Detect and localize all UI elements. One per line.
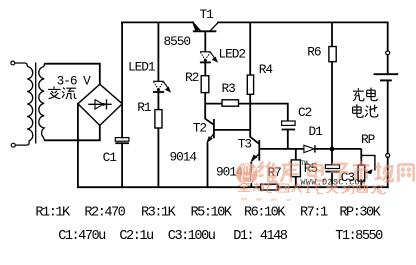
diode D1 triangle [304,145,314,152]
watermark char 电 [308,162,325,181]
wire R4 bottom to T3 collector [250,94,259,144]
transistor T1 emitter slant [193,23,200,31]
svg-text:R4: R4 [259,62,274,77]
C3 bottom lead [331,172,333,187]
transformer T primary winding [27,67,33,142]
capacitor C2 bottom plate [282,129,296,131]
wire secondary bottom to bridge [45,125,100,140]
transformer T secondary lead bottom [44,138,46,141]
label 充 (charging) hand-drawn glyph [353,88,378,101]
wire R6 branch top [331,22,333,46]
watermark text line1 维库电子市场网 approximations [258,161,413,182]
capacitor C3 bottom plate [325,171,339,173]
transistor T1 collector slant [210,22,218,30]
LED LED1 apex dot [157,88,160,91]
bridge diode axis wire [88,103,111,105]
T2 base wire to R4 line [214,129,250,131]
svg-text:R6: R6 [307,45,321,60]
bridge rectifier diamond [78,84,122,125]
values row 2 [58,229,383,244]
wire bottom rail left of R7 [78,186,261,188]
wire right rail battery bottom lead [387,81,389,153]
LED LED2 cathode bar [200,61,211,63]
svg-text:R2: R2 [185,70,199,85]
svg-text:R1: R1 [137,100,152,115]
svg-text:RP:30K: RP:30K [339,205,381,220]
svg-text:R7:1: R7:1 [300,205,328,220]
svg-text:RP: RP [361,132,375,147]
RP top lead [360,149,362,165]
LED LED1 arrow [164,82,170,92]
svg-text:D1: D1 [309,124,324,139]
capacitor C1 bottom plate [115,142,129,144]
junction dot D1 node [330,147,335,152]
LED LED2 arrow [211,53,217,62]
transistor T3 emitter slant [252,154,259,161]
transistor T3 emitter arrow [251,155,257,161]
svg-text:T2: T2 [193,120,207,135]
R5 bottom lead [295,177,297,188]
transformer T primary lead bottom [15,141,29,145]
T1 base to LED2 wire [204,32,206,52]
label 流 (AC) hand-drawn glyph [62,88,77,99]
svg-text:D1: 4148: D1: 4148 [233,229,288,244]
wire top rail right segment [218,21,388,23]
svg-text:9014: 9014 [170,150,198,165]
resistor R4 [247,75,253,94]
LED2 to R2 wire [204,63,206,76]
battery negative plate [380,79,392,81]
svg-text:R2:470: R2:470 [84,205,125,220]
wire left rail upper [121,22,123,137]
transistor T3 base bar [258,140,260,161]
svg-text:T1:8550: T1:8550 [335,229,383,244]
svg-text:T3: T3 [238,136,252,151]
T3 base wire to D1 [259,148,304,150]
RP bottom lead [360,181,362,187]
svg-text:8550: 8550 [164,34,191,49]
capacitor C3 top plate [325,165,339,169]
transformer T core [35,63,37,144]
watermark char 场 [375,163,393,182]
capacitor C2 top plate [282,121,296,125]
resistor R5 [291,160,300,177]
svg-text:LED1: LED1 [128,59,156,74]
LED LED2 apex dot [204,59,207,62]
capacitor C1 top plate [115,138,129,142]
LED LED2 triangle [200,51,211,53]
transformer T secondary lead top [44,64,46,67]
wire left rail lower [121,144,123,188]
C2 bottom lead [287,130,289,149]
battery positive plate [374,73,399,75]
label 交 (AC) hand-drawn glyph [48,86,76,99]
transformer T primary lead top [15,63,27,67]
svg-text:C1:470u: C1:470u [58,229,105,244]
watermark text line2 全球最大IC采购网络 approximations [238,182,385,194]
svg-text:R3: R3 [222,81,236,96]
watermark faint third-line dots [241,198,291,201]
transistor T2 emitter slant [208,134,214,142]
wire top rail left segment [122,21,193,23]
svg-text:R5:10K: R5:10K [191,205,233,220]
R1 to bottom rail wire [157,128,159,187]
watermark char 子 [330,164,348,181]
svg-text:T1: T1 [200,7,215,22]
wire bridge minus drop [77,104,79,187]
svg-text:C2: C2 [298,105,312,120]
wire R3 node [205,103,222,105]
svg-text:R6:10K: R6:10K [244,205,286,220]
wire D1 to RP corner [315,148,361,150]
T3 emitter to bottom rail wire [250,162,252,188]
RP wiper arrow [365,170,372,174]
watermark char 库 [281,161,299,182]
transistor T2 base bar [213,119,215,138]
label 池 (battery) hand-drawn glyph [365,105,378,117]
label 电 (battery) hand-drawn glyph [353,104,378,117]
transistor T1 base bar [193,30,217,32]
wire right rail top [387,22,389,50]
transformer T primary terminal top [11,61,15,65]
R5 top lead [295,149,297,160]
wire bottom rail right of R7 [278,186,388,188]
watermark logo circle [236,163,258,185]
C3 top lead [331,150,333,165]
T2 emitter to bottom rail wire [207,143,209,188]
bridge diode triangle [95,100,103,109]
wire right rail battery top lead [387,55,389,73]
svg-text:C3:100u: C3:100u [168,229,215,244]
resistor R6 [329,47,336,62]
wire R6 to junction [331,62,333,148]
resistor R3 [222,100,239,106]
values row 1 [35,205,381,220]
svg-text:R1:1K: R1:1K [35,205,71,220]
LED LED1 cathode bar [153,91,164,93]
transformer T secondary winding [39,67,44,138]
bridge diode junction dot [102,103,105,106]
wire right rail bottom [387,158,389,188]
resistor R7 [261,184,278,190]
wire R3 to C2 [239,104,288,121]
diode D1 cathode bar [314,145,316,152]
label 电 (charging) hand-drawn glyph [367,88,378,101]
svg-text:LED2: LED2 [219,46,246,61]
wire secondary top to bridge [45,64,100,84]
svg-text:WWW.DZSC.COM: WWW.DZSC.COM [301,179,366,188]
R2 to T2 wire [205,93,214,125]
resistor R1 [155,110,162,128]
svg-text:C2:1u: C2:1u [119,229,153,244]
bridge diode cathode bar [106,99,108,109]
svg-text:TM: TM [301,160,309,167]
LED LED1 triangle [153,80,164,82]
svg-text:C1: C1 [103,150,118,165]
svg-text:3-6 V: 3-6 V [57,74,92,89]
transformer T primary terminal bottom [11,143,15,147]
LED1 to R1 wire [157,93,159,110]
watermark char 市 [353,161,370,182]
potentiometer RP box [358,165,365,181]
svg-text:R3:1K: R3:1K [141,205,177,220]
battery terminal bottom circle [386,153,390,157]
RP wiper wire [361,155,375,170]
watermark char 网 [398,164,413,182]
transistor T2 emitter arrow [207,137,213,143]
transistor T1 emitter arrow [193,23,200,31]
resistor R2 [201,76,209,93]
battery terminal top circle [386,51,390,55]
LED1 chain wire top [157,22,159,81]
watermark char 维 [258,162,277,183]
wire R4 branch top [249,22,251,75]
